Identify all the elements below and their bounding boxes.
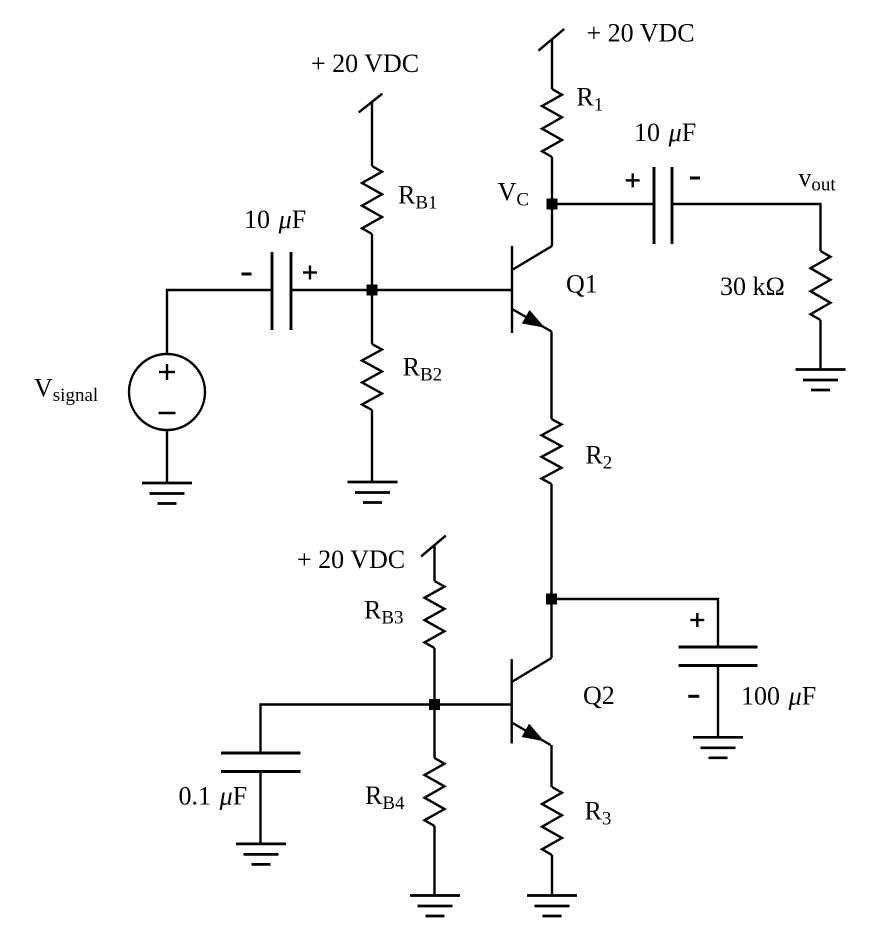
svg-text:vout: vout <box>798 163 836 196</box>
wire RB4 to ground <box>433 826 435 896</box>
polarity + (input cap) <box>303 271 317 273</box>
polarity - (input cap) <box>242 273 252 276</box>
ground (100uF) <box>693 737 743 758</box>
wire Vsignal to input wire corner <box>167 290 272 354</box>
svg-text:VC: VC <box>498 178 529 211</box>
polarity + (100uF) <box>690 619 704 621</box>
svg-text:100 μF: 100 μF <box>741 682 816 711</box>
wire Q2 collector to interstage node <box>550 599 552 658</box>
resistor RB3 <box>425 581 445 648</box>
svg-text:R2: R2 <box>585 441 612 474</box>
wire interstage node to 100uF cap <box>552 599 719 647</box>
wire R1 to VC node and Q1 collector <box>551 157 553 246</box>
wire R2 to interstage node <box>550 484 552 599</box>
node Q2 base / RB3-RB4 junction <box>429 699 440 710</box>
polarity - (output cap) <box>690 177 700 180</box>
ground (RB4) <box>410 896 460 917</box>
svg-text:30 kΩ: 30 kΩ <box>720 272 785 301</box>
svg-text:0.1 μF: 0.1 μF <box>179 782 248 811</box>
polarity - (100uF) <box>688 695 699 698</box>
wire RB3 to Q2 base node <box>433 648 435 705</box>
node Q1 base / RB1-RB2 junction <box>367 285 378 296</box>
svg-text:RB4: RB4 <box>365 781 405 814</box>
wire R3 to ground <box>551 855 553 896</box>
svg-text:RB3: RB3 <box>364 596 404 629</box>
svg-text:+ 20 VDC: + 20 VDC <box>297 545 405 574</box>
capacitor C-bypass 100uF <box>679 647 758 666</box>
wire input cap to Q1 base <box>291 289 512 291</box>
wire RB2 to ground <box>371 410 373 482</box>
resistor RB2 <box>362 344 382 410</box>
resistor R-load 30k <box>811 251 831 320</box>
resistor R1 <box>542 89 562 157</box>
power symbol +20VDC stage2 <box>421 536 446 581</box>
wire 30k to ground <box>819 320 821 370</box>
wire VC node to output cap <box>552 203 654 205</box>
svg-text:R3: R3 <box>585 797 612 830</box>
wire 100uF to ground <box>717 666 719 738</box>
ground (30k load) <box>796 370 846 391</box>
wire Vsignal to ground <box>166 430 168 483</box>
svg-text:10 μF: 10 μF <box>244 205 306 234</box>
svg-text:Q1: Q1 <box>566 270 598 299</box>
ground (R3) <box>527 896 577 917</box>
svg-text:RB2: RB2 <box>403 353 443 386</box>
capacitor C-out 10uF <box>654 167 672 244</box>
svg-text:R1: R1 <box>576 83 603 116</box>
svg-text:+ 20 VDC: + 20 VDC <box>311 49 419 78</box>
ground (Vsignal) <box>142 483 192 504</box>
node VC <box>547 199 558 210</box>
resistor R2 <box>542 419 562 484</box>
capacitor C-base 0.1uF <box>221 753 301 772</box>
wire Q1 emitter to R2 <box>550 332 552 420</box>
svg-text:10 μF: 10 μF <box>634 118 696 147</box>
wire base node to RB2 <box>371 290 373 344</box>
svg-text:RB1: RB1 <box>398 181 438 214</box>
svg-text:+ 20 VDC: + 20 VDC <box>587 19 695 48</box>
wire 0.1uF to ground <box>259 772 261 844</box>
wire base node to bypass cap corner and Q2 base <box>261 705 513 754</box>
power symbol +20VDC stage1-left <box>359 94 383 166</box>
resistor RB1 <box>362 166 382 234</box>
wire RB1 to base node <box>371 234 373 290</box>
wire Q2 base node to RB4 <box>433 705 435 759</box>
node interstage (R2 / Q2 collector / 100uF) <box>546 594 557 605</box>
transistor Q2 <box>512 658 552 745</box>
svg-text:Vsignal: Vsignal <box>34 374 98 407</box>
svg-text:Q2: Q2 <box>583 681 615 710</box>
ground (0.1uF) <box>236 844 286 865</box>
resistor RB4 <box>425 758 445 826</box>
capacitor C-in 10uF <box>272 252 291 330</box>
resistor R3 <box>542 787 562 855</box>
polarity + (output cap) <box>626 179 640 181</box>
ground (RB2) <box>348 482 398 503</box>
source Vsignal <box>129 354 205 430</box>
wire Q2 emitter to R3 <box>550 745 552 787</box>
transistor Q1 <box>512 246 552 333</box>
power symbol +20VDC stage1-right <box>538 29 564 89</box>
wire output cap to vout <box>672 204 821 251</box>
